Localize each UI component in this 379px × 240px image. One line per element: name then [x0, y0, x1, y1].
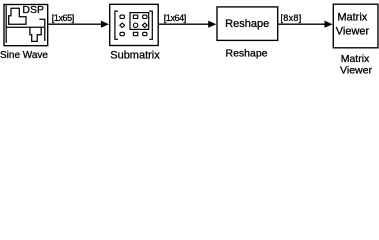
svg-text:Matrix: Matrix [341, 53, 370, 65]
svg-text:DSP: DSP [22, 4, 44, 16]
staircase right edge [40, 19, 45, 40]
svg-text:Viewer: Viewer [336, 26, 370, 38]
svg-text:Reshape: Reshape [225, 18, 269, 30]
svg-text:Reshape: Reshape [225, 48, 267, 60]
matrix elements row 3 [120, 32, 124, 35]
wire Reshape to Matrix Viewer [278, 23, 325, 25]
svg-text:Sine Wave: Sine Wave [0, 50, 48, 61]
staircase lower [6, 26, 43, 28]
matrix icon right bracket [149, 11, 152, 39]
axis [5, 6, 7, 42]
svg-text:[1x64]: [1x64] [164, 13, 186, 23]
matrix elements row 2 (diamonds) [120, 23, 125, 28]
staircase upper [9, 8, 26, 24]
matrix icon selection rectangle [130, 13, 149, 30]
svg-text:Submatrix: Submatrix [110, 49, 160, 61]
wire Sine Wave to Submatrix [48, 23, 102, 25]
wire Submatrix to Reshape [159, 23, 210, 25]
arrowhead into Reshape [208, 21, 216, 28]
svg-text:Matrix: Matrix [337, 12, 367, 24]
arrowhead into Submatrix [101, 21, 109, 28]
matrix icon left bracket [115, 11, 152, 39]
sine wave icon [6, 6, 45, 42]
svg-text:[1x65]: [1x65] [52, 13, 74, 23]
arrowhead into Matrix Viewer [325, 21, 333, 28]
matrix elements row 1 [120, 15, 147, 36]
block Reshape [217, 7, 278, 41]
block Submatrix [110, 4, 159, 45]
svg-text:[8x8]: [8x8] [280, 13, 301, 23]
svg-text:Viewer: Viewer [340, 65, 372, 76]
block Matrix Viewer [333, 4, 378, 48]
block Sine Wave [4, 5, 48, 46]
